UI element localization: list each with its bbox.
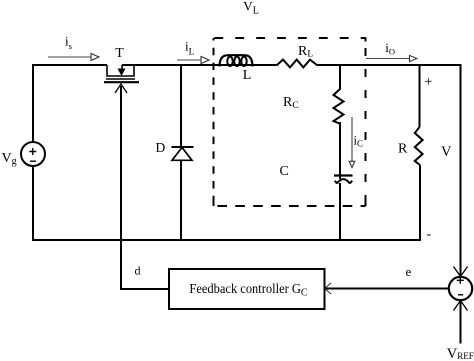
svg-text:d: d: [135, 264, 141, 278]
svg-text:C: C: [280, 164, 289, 179]
svg-text:D: D: [156, 140, 166, 155]
svg-text:e: e: [406, 264, 412, 279]
svg-text:T: T: [115, 46, 124, 61]
svg-text:V: V: [441, 144, 452, 160]
svg-text:Feedback controller G: Feedback controller G: [189, 281, 301, 296]
svg-text:R: R: [398, 142, 408, 157]
svg-text:-: -: [427, 227, 432, 242]
svg-text:C: C: [301, 288, 308, 299]
svg-text:+: +: [424, 74, 432, 90]
svg-text:L: L: [243, 68, 252, 83]
